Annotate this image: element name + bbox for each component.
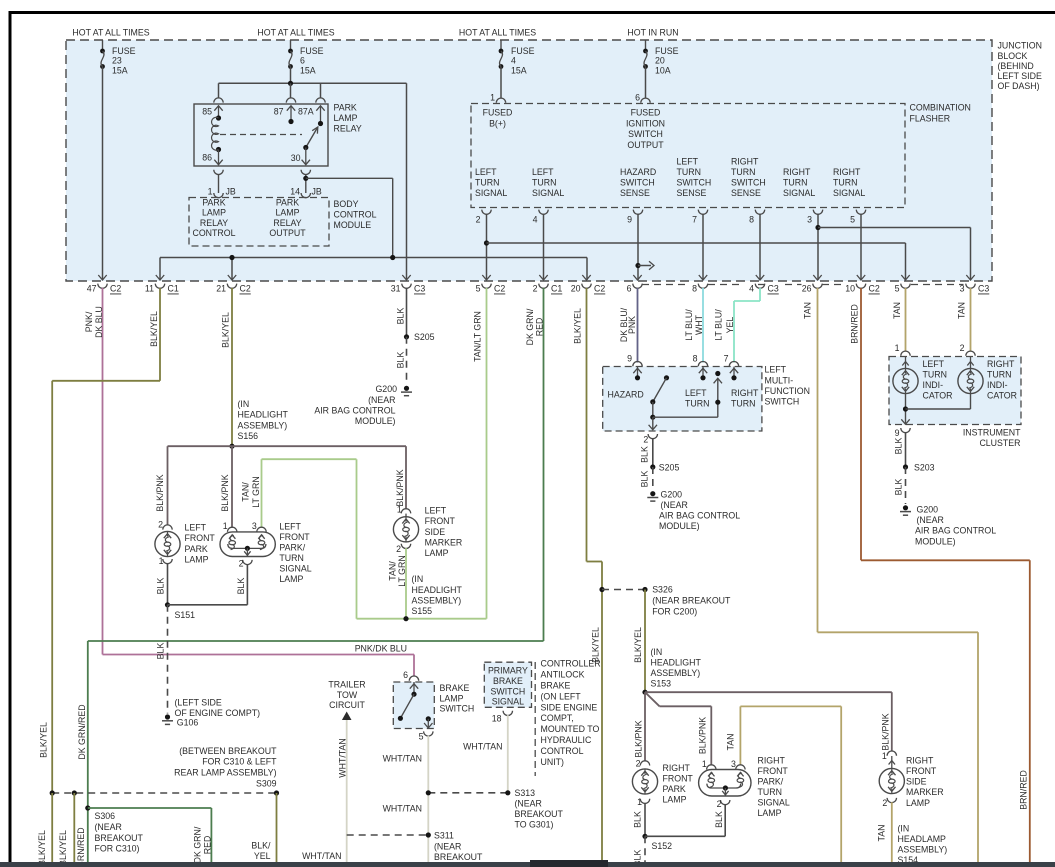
svg-text:5: 5 [476, 284, 481, 294]
svg-text:RED: RED [203, 836, 213, 855]
svg-text:RIGHT: RIGHT [783, 167, 811, 177]
svg-text:4: 4 [749, 284, 754, 294]
svg-text:OF ENGINE COMPT): OF ENGINE COMPT) [175, 708, 261, 718]
svg-text:CONTROL: CONTROL [192, 228, 235, 238]
svg-text:WHT/TAN: WHT/TAN [302, 851, 341, 861]
svg-text:15A: 15A [112, 65, 128, 75]
svg-text:(NEAR BREAKOUT: (NEAR BREAKOUT [652, 595, 731, 605]
svg-text:BREAKOUT: BREAKOUT [95, 833, 144, 843]
svg-text:BLOCK: BLOCK [998, 51, 1028, 61]
svg-text:JB: JB [312, 187, 322, 197]
svg-text:3: 3 [807, 215, 812, 225]
svg-text:COMPT,: COMPT, [541, 713, 574, 723]
svg-text:BLK/YEL: BLK/YEL [58, 830, 68, 866]
svg-text:ASSEMBLY): ASSEMBLY) [238, 420, 288, 430]
svg-text:RIGHT: RIGHT [731, 388, 759, 398]
svg-text:OUTPUT: OUTPUT [627, 140, 664, 150]
svg-text:SWITCH: SWITCH [628, 129, 663, 139]
svg-text:SIDE: SIDE [425, 527, 446, 537]
svg-text:MODULE): MODULE) [659, 521, 700, 531]
svg-text:S326: S326 [652, 585, 673, 595]
svg-text:CATOR: CATOR [987, 391, 1017, 401]
svg-text:SWITCH: SWITCH [731, 177, 766, 187]
svg-text:REAR LAMP ASSEMBLY): REAR LAMP ASSEMBLY) [174, 768, 276, 778]
svg-text:G200: G200 [375, 384, 397, 394]
svg-text:S306: S306 [95, 811, 116, 821]
svg-text:SWITCH: SWITCH [491, 686, 526, 696]
svg-text:6: 6 [635, 93, 640, 103]
svg-text:LT GRN: LT GRN [251, 476, 261, 507]
svg-text:RIGHT: RIGHT [758, 756, 786, 766]
svg-text:HOT IN RUN: HOT IN RUN [627, 28, 678, 38]
svg-text:FUNCTION: FUNCTION [765, 386, 810, 396]
svg-text:TURN: TURN [532, 177, 556, 187]
svg-text:CATOR: CATOR [923, 391, 953, 401]
svg-text:15A: 15A [300, 65, 316, 75]
svg-text:SWITCH: SWITCH [677, 177, 712, 187]
svg-text:BLK/PNK: BLK/PNK [634, 720, 644, 757]
svg-text:PARK/: PARK/ [758, 777, 784, 787]
svg-text:HEADLIGHT: HEADLIGHT [651, 658, 702, 668]
svg-text:(LEFT SIDE: (LEFT SIDE [175, 697, 222, 707]
svg-text:47: 47 [87, 284, 97, 294]
svg-text:BLK/PNK: BLK/PNK [698, 717, 708, 754]
svg-text:2: 2 [960, 343, 965, 353]
svg-text:8: 8 [692, 284, 697, 294]
svg-text:(NEAR: (NEAR [95, 822, 122, 832]
svg-text:AIR BAG CONTROL: AIR BAG CONTROL [659, 511, 740, 521]
svg-text:RIGHT: RIGHT [987, 359, 1015, 369]
svg-text:PARK: PARK [185, 544, 208, 554]
svg-text:SIGNAL: SIGNAL [783, 188, 815, 198]
svg-text:TAN: TAN [892, 302, 902, 319]
svg-text:DK GRN/RED: DK GRN/RED [77, 704, 87, 759]
svg-text:LAMP: LAMP [276, 208, 300, 218]
svg-text:LT BLU/: LT BLU/ [714, 309, 724, 341]
svg-text:5: 5 [850, 215, 855, 225]
svg-text:SWITCH: SWITCH [620, 177, 655, 187]
svg-text:C2: C2 [110, 284, 121, 294]
svg-text:26: 26 [802, 284, 812, 294]
svg-text:S311: S311 [434, 831, 454, 841]
svg-text:WHT/TAN: WHT/TAN [463, 742, 502, 752]
svg-text:10: 10 [845, 284, 855, 294]
svg-text:FUSE: FUSE [655, 46, 679, 56]
svg-text:LAMP: LAMP [425, 548, 449, 558]
svg-text:BLK: BLK [633, 811, 643, 828]
svg-text:S155: S155 [412, 606, 433, 616]
svg-text:31: 31 [391, 284, 401, 294]
svg-text:INSTRUMENT: INSTRUMENT [963, 428, 1021, 438]
svg-text:HAZARD: HAZARD [620, 167, 656, 177]
svg-text:TURN: TURN [783, 177, 807, 187]
svg-text:2: 2 [239, 558, 244, 568]
svg-text:BLK: BLK [894, 479, 904, 496]
svg-text:C1: C1 [168, 284, 179, 294]
svg-text:G106: G106 [177, 718, 199, 728]
svg-text:18: 18 [492, 713, 502, 723]
svg-text:SWITCH: SWITCH [440, 704, 475, 714]
svg-text:RELAY: RELAY [334, 124, 362, 134]
svg-text:TRAILER: TRAILER [328, 679, 365, 689]
svg-text:3: 3 [252, 521, 257, 531]
svg-text:6: 6 [403, 670, 408, 680]
svg-text:BLK: BLK [156, 578, 166, 595]
svg-text:YEL: YEL [254, 851, 271, 861]
svg-text:JUNCTION: JUNCTION [998, 41, 1042, 51]
svg-text:HYDRAULIC: HYDRAULIC [541, 735, 592, 745]
svg-text:(ON LEFT: (ON LEFT [541, 691, 582, 701]
svg-text:TAN/: TAN/ [241, 482, 251, 502]
svg-text:LT GRN: LT GRN [397, 555, 407, 586]
svg-text:LAMP: LAMP [440, 693, 464, 703]
svg-text:S205: S205 [414, 332, 435, 342]
svg-text:HOT AT ALL TIMES: HOT AT ALL TIMES [459, 28, 536, 38]
svg-text:MULTI-: MULTI- [765, 375, 794, 385]
svg-text:(BEHIND: (BEHIND [998, 61, 1034, 71]
svg-text:ASSEMBLY): ASSEMBLY) [898, 845, 948, 855]
svg-text:(NEAR: (NEAR [515, 798, 542, 808]
svg-text:BLK/YEL: BLK/YEL [221, 312, 231, 348]
svg-text:MODULE: MODULE [334, 220, 372, 230]
svg-text:BLK/YEL: BLK/YEL [149, 311, 159, 347]
svg-text:SIDE ENGINE: SIDE ENGINE [541, 702, 598, 712]
svg-text:87A: 87A [298, 107, 314, 117]
svg-text:CONTROL: CONTROL [541, 746, 584, 756]
svg-text:(IN: (IN [412, 574, 424, 584]
svg-text:HOT AT ALL TIMES: HOT AT ALL TIMES [257, 28, 334, 38]
svg-text:(NEAR: (NEAR [917, 515, 944, 525]
svg-text:YEL: YEL [725, 317, 735, 334]
svg-text:FRONT: FRONT [758, 766, 789, 776]
svg-text:BRAKE: BRAKE [440, 683, 470, 693]
svg-text:SWITCH: SWITCH [765, 397, 800, 407]
svg-text:RELAY: RELAY [200, 218, 228, 228]
svg-text:LEFT: LEFT [425, 505, 447, 515]
svg-text:HEADLIGHT: HEADLIGHT [412, 585, 463, 595]
svg-text:FUSE: FUSE [511, 46, 535, 56]
svg-text:6: 6 [627, 284, 632, 294]
svg-text:INDI-: INDI- [923, 380, 944, 390]
svg-text:BLK: BLK [714, 811, 724, 828]
svg-text:BLK: BLK [396, 308, 406, 325]
svg-text:FRONT: FRONT [663, 773, 694, 783]
svg-text:ASSEMBLY): ASSEMBLY) [412, 595, 462, 605]
svg-text:B(+): B(+) [489, 118, 506, 128]
svg-text:S309: S309 [256, 778, 277, 788]
svg-text:TURN: TURN [833, 177, 857, 187]
svg-text:1: 1 [637, 797, 642, 807]
svg-text:INDI-: INDI- [987, 380, 1008, 390]
svg-text:S151: S151 [175, 610, 196, 620]
svg-text:2: 2 [643, 435, 648, 445]
svg-text:C2: C2 [240, 284, 251, 294]
svg-text:LAMP: LAMP [663, 794, 687, 804]
svg-text:1: 1 [882, 751, 887, 761]
svg-text:TURN: TURN [731, 167, 755, 177]
svg-text:FOR C310 & LEFT: FOR C310 & LEFT [202, 757, 277, 767]
svg-text:BLK: BLK [894, 438, 904, 455]
svg-text:TAN: TAN [803, 302, 813, 319]
svg-text:(NEAR: (NEAR [368, 395, 395, 405]
svg-text:CLUSTER: CLUSTER [979, 438, 1020, 448]
svg-text:C3: C3 [978, 284, 989, 294]
svg-text:2: 2 [636, 759, 641, 769]
svg-text:TOW: TOW [337, 690, 358, 700]
svg-text:SIGNAL: SIGNAL [279, 564, 311, 574]
svg-text:S205: S205 [659, 462, 680, 472]
svg-text:SENSE: SENSE [731, 188, 761, 198]
svg-text:LEFT: LEFT [685, 388, 707, 398]
svg-text:FRONT: FRONT [185, 533, 216, 543]
svg-text:1: 1 [490, 93, 495, 103]
svg-text:LEFT: LEFT [532, 167, 554, 177]
svg-text:LAMP: LAMP [906, 798, 930, 808]
svg-text:SIGNAL: SIGNAL [492, 697, 524, 707]
svg-text:TURN: TURN [685, 399, 709, 409]
svg-text:BLK/PNK: BLK/PNK [395, 469, 405, 506]
svg-text:OUTPUT: OUTPUT [269, 228, 306, 238]
svg-text:87: 87 [274, 107, 284, 117]
svg-text:6: 6 [300, 56, 305, 66]
svg-text:ASSEMBLY): ASSEMBLY) [651, 668, 701, 678]
svg-text:SENSE: SENSE [677, 188, 707, 198]
svg-text:2: 2 [476, 215, 481, 225]
svg-text:BREAKOUT: BREAKOUT [434, 852, 483, 862]
svg-text:AIR BAG CONTROL: AIR BAG CONTROL [915, 526, 996, 536]
svg-text:UNIT): UNIT) [541, 757, 565, 767]
svg-text:FUSE: FUSE [300, 46, 324, 56]
svg-text:TAN: TAN [877, 825, 887, 842]
svg-text:RIGHT: RIGHT [906, 755, 934, 765]
svg-text:2: 2 [717, 799, 722, 809]
svg-text:PARK: PARK [276, 197, 299, 207]
svg-text:OF DASH): OF DASH) [998, 81, 1040, 91]
svg-text:BLK: BLK [640, 446, 650, 463]
svg-text:G200: G200 [661, 489, 683, 499]
svg-text:PNK: PNK [627, 316, 637, 334]
svg-text:BREAKOUT: BREAKOUT [515, 809, 564, 819]
svg-text:23: 23 [112, 56, 122, 66]
svg-text:9: 9 [627, 215, 632, 225]
svg-text:(NEAR: (NEAR [434, 841, 461, 851]
svg-text:BLK: BLK [640, 471, 650, 488]
svg-text:LAMP: LAMP [279, 574, 303, 584]
svg-text:ANTILOCK: ANTILOCK [541, 670, 585, 680]
svg-text:HOT AT ALL TIMES: HOT AT ALL TIMES [72, 28, 149, 38]
svg-text:TURN: TURN [677, 167, 701, 177]
svg-text:TAN/LT GRN: TAN/LT GRN [473, 311, 483, 362]
svg-text:PARK: PARK [663, 784, 686, 794]
svg-text:4: 4 [533, 215, 538, 225]
svg-text:1: 1 [702, 759, 707, 769]
svg-text:FUSED: FUSED [483, 108, 513, 118]
svg-text:FRONT: FRONT [906, 766, 937, 776]
svg-text:FUSED: FUSED [631, 108, 661, 118]
svg-text:TURN: TURN [923, 369, 947, 379]
svg-text:MODULE): MODULE) [915, 536, 956, 546]
svg-text:AIR BAG CONTROL: AIR BAG CONTROL [314, 405, 395, 415]
svg-text:15A: 15A [511, 65, 527, 75]
svg-text:9: 9 [627, 353, 632, 363]
svg-text:SIGNAL: SIGNAL [532, 188, 564, 198]
svg-text:BLK/YEL: BLK/YEL [37, 830, 47, 866]
svg-text:LEFT: LEFT [279, 522, 301, 532]
svg-text:S203: S203 [914, 462, 935, 472]
svg-text:LEFT: LEFT [677, 157, 699, 167]
svg-text:PNK/DK BLU: PNK/DK BLU [355, 643, 407, 653]
svg-text:TURN: TURN [279, 553, 303, 563]
svg-text:FOR C200): FOR C200) [652, 606, 697, 616]
svg-text:FOR C310): FOR C310) [95, 844, 140, 854]
svg-text:30: 30 [291, 153, 301, 163]
svg-text:S156: S156 [238, 431, 259, 441]
svg-text:LAMP: LAMP [202, 208, 226, 218]
svg-text:LEFT: LEFT [475, 167, 497, 177]
svg-text:MARKER: MARKER [906, 787, 944, 797]
svg-text:SIDE: SIDE [906, 777, 927, 787]
svg-text:TAN: TAN [726, 734, 736, 751]
svg-text:DK GRN/: DK GRN/ [525, 308, 535, 345]
svg-text:LEFT: LEFT [185, 523, 207, 533]
svg-text:1: 1 [208, 187, 213, 197]
svg-text:RIGHT: RIGHT [663, 763, 691, 773]
svg-text:TO G301): TO G301) [515, 820, 554, 830]
svg-text:(IN: (IN [238, 399, 250, 409]
svg-text:RELAY: RELAY [273, 218, 301, 228]
svg-text:COMBINATION: COMBINATION [910, 103, 971, 113]
svg-text:FUSE: FUSE [112, 46, 136, 56]
svg-text:11: 11 [145, 284, 154, 294]
svg-text:FRONT: FRONT [279, 532, 310, 542]
svg-text:5: 5 [419, 732, 424, 742]
svg-text:RED: RED [535, 318, 545, 337]
svg-text:WHT: WHT [694, 314, 704, 335]
svg-text:CIRCUIT: CIRCUIT [329, 700, 365, 710]
svg-text:14: 14 [290, 187, 300, 197]
svg-text:9: 9 [895, 428, 900, 438]
svg-text:WHT/TAN: WHT/TAN [338, 738, 348, 777]
svg-text:RIGHT: RIGHT [731, 157, 759, 167]
svg-text:(IN: (IN [898, 823, 910, 833]
svg-text:MODULE): MODULE) [355, 416, 396, 426]
svg-text:8: 8 [693, 353, 698, 363]
svg-text:PRIMARY: PRIMARY [488, 666, 528, 676]
svg-text:BLK/YEL: BLK/YEL [633, 627, 643, 663]
svg-text:3: 3 [731, 759, 736, 769]
svg-text:1: 1 [159, 556, 164, 566]
svg-text:TURN: TURN [987, 369, 1011, 379]
svg-text:DK BLU: DK BLU [94, 306, 104, 338]
svg-text:WHT/TAN: WHT/TAN [383, 753, 422, 763]
svg-text:IGNITION: IGNITION [626, 118, 665, 128]
svg-text:BLK: BLK [396, 352, 406, 369]
svg-text:S313: S313 [515, 788, 536, 798]
svg-text:HEADLAMP: HEADLAMP [898, 834, 947, 844]
svg-text:BLK/PNK: BLK/PNK [155, 474, 165, 511]
svg-text:PARK/: PARK/ [279, 543, 305, 553]
svg-text:21: 21 [216, 284, 226, 294]
svg-text:SENSE: SENSE [620, 188, 650, 198]
svg-text:C2: C2 [594, 284, 605, 294]
svg-text:8: 8 [749, 215, 754, 225]
svg-text:C2: C2 [869, 284, 880, 294]
svg-text:LAMP: LAMP [334, 113, 358, 123]
svg-text:HAZARD: HAZARD [608, 390, 644, 400]
svg-text:S153: S153 [651, 679, 672, 689]
svg-text:BLK/YEL: BLK/YEL [39, 722, 49, 758]
svg-text:86: 86 [202, 153, 212, 163]
svg-text:G200: G200 [917, 505, 939, 515]
svg-text:1: 1 [397, 504, 402, 514]
svg-text:MARKER: MARKER [425, 538, 463, 548]
svg-text:BLK/PNK: BLK/PNK [881, 713, 891, 750]
svg-text:2: 2 [158, 520, 163, 530]
svg-text:C3: C3 [768, 284, 779, 294]
svg-text:DK GRN/: DK GRN/ [193, 826, 203, 863]
svg-text:7: 7 [724, 353, 729, 363]
svg-text:WHT/TAN: WHT/TAN [383, 804, 422, 814]
svg-text:FRONT: FRONT [425, 516, 456, 526]
svg-text:LAMP: LAMP [185, 555, 209, 565]
svg-text:C1: C1 [551, 284, 562, 294]
svg-text:1: 1 [223, 521, 228, 531]
svg-text:TAN: TAN [957, 302, 967, 319]
svg-text:C3: C3 [414, 284, 425, 294]
svg-text:20: 20 [655, 56, 665, 66]
svg-text:TURN: TURN [731, 399, 755, 409]
svg-text:BRAKE: BRAKE [541, 681, 571, 691]
svg-text:2: 2 [882, 798, 887, 808]
svg-text:BLK: BLK [236, 578, 246, 595]
svg-text:2: 2 [533, 284, 538, 294]
svg-text:(IN: (IN [651, 647, 663, 657]
svg-text:BRN/RED: BRN/RED [850, 304, 860, 344]
svg-text:LT BLU/: LT BLU/ [684, 309, 694, 341]
svg-text:BRN/RED: BRN/RED [1019, 770, 1029, 810]
svg-text:2: 2 [396, 544, 401, 554]
svg-text:SIGNAL: SIGNAL [758, 798, 790, 808]
svg-text:PARK: PARK [334, 103, 357, 113]
svg-text:SIGNAL: SIGNAL [475, 188, 507, 198]
svg-text:CONTROL: CONTROL [334, 210, 377, 220]
svg-text:C2: C2 [494, 284, 505, 294]
svg-text:1: 1 [895, 343, 900, 353]
svg-text:DK GRN/RED: DK GRN/RED [76, 827, 86, 867]
svg-text:TURN: TURN [758, 787, 782, 797]
svg-text:LEFT: LEFT [923, 359, 945, 369]
svg-text:FLASHER: FLASHER [910, 113, 951, 123]
svg-text:BLK/YEL: BLK/YEL [573, 308, 583, 344]
svg-text:TURN: TURN [475, 177, 499, 187]
svg-text:SIGNAL: SIGNAL [833, 188, 865, 198]
svg-text:10A: 10A [655, 65, 671, 75]
svg-text:HEADLIGHT: HEADLIGHT [238, 410, 289, 420]
svg-text:MOUNTED TO: MOUNTED TO [541, 724, 600, 734]
svg-text:LEFT: LEFT [765, 365, 787, 375]
svg-text:PARK: PARK [202, 197, 225, 207]
svg-text:5: 5 [895, 284, 900, 294]
svg-text:4: 4 [511, 56, 516, 66]
svg-text:85: 85 [202, 107, 212, 117]
svg-text:JB: JB [226, 187, 236, 197]
svg-text:LAMP: LAMP [758, 808, 782, 818]
svg-text:BLK/PNK: BLK/PNK [220, 474, 230, 511]
svg-text:BRAKE: BRAKE [493, 676, 523, 686]
svg-text:(NEAR: (NEAR [661, 500, 688, 510]
svg-text:RIGHT: RIGHT [833, 167, 861, 177]
svg-text:BLK/YEL: BLK/YEL [591, 627, 601, 663]
